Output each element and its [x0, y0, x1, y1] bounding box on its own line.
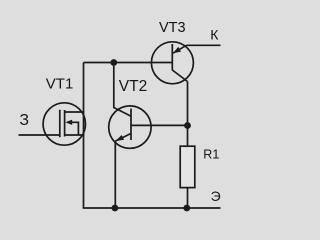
svg-text:R1: R1 [203, 148, 219, 162]
svg-text:З: З [19, 112, 29, 129]
wire: collector lead to К [187, 44, 221, 46]
wire: VT3 collector drop to node B [187, 82, 189, 126]
wire: gate lead from З to VT1 [19, 134, 60, 136]
wire: VT2 collector riser from node A [114, 63, 131, 117]
wire: bottom emitter rail [83, 207, 221, 209]
wire: VT2 base lead to node B [131, 124, 188, 126]
svg-text:К: К [210, 27, 219, 43]
wire: VT1 drain/source vertical bus (left), from top corner to bottom rail [83, 63, 85, 209]
svg-text:VT3: VT3 [159, 20, 186, 36]
svg-text:VT1: VT1 [46, 76, 74, 93]
transistor VT2 (npn) [109, 106, 151, 148]
wire: R1 bottom to rail [187, 188, 189, 208]
node D: R1 at rail [183, 205, 190, 212]
wire: VT2 emitter drop to bottom rail [114, 141, 116, 208]
wire: node B to R1 top [187, 126, 189, 147]
node A: junction of VT1 drain, VT2 collector, VT3 base [110, 59, 117, 66]
node C: VT2 emitter at rail [112, 205, 119, 212]
svg-text:Э: Э [211, 188, 221, 204]
transistor VT1 (n-channel MOSFET) [43, 103, 85, 145]
resistor R1 [180, 146, 195, 187]
transistor VT3 (pnp) [151, 42, 193, 84]
node B: junction of VT3 collector, VT2 base, R1 [184, 122, 191, 129]
svg-text:VT2: VT2 [119, 78, 147, 95]
wire: top horizontal from VT1 bus to VT3 base [84, 62, 173, 64]
